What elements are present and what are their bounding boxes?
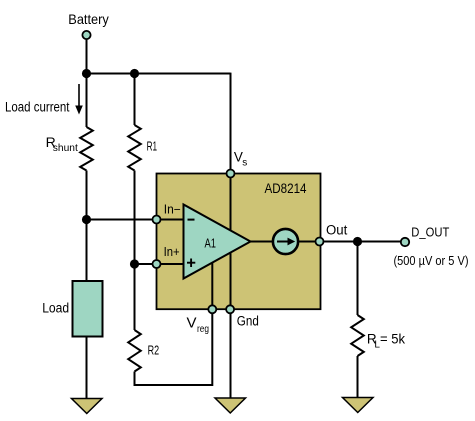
svg-text:shunt: shunt bbox=[53, 142, 78, 154]
svg-text:Load: Load bbox=[42, 300, 69, 315]
svg-text:A1: A1 bbox=[205, 235, 217, 250]
svg-text:V: V bbox=[187, 315, 197, 332]
svg-text:s: s bbox=[242, 158, 247, 169]
svg-text:Gnd: Gnd bbox=[237, 314, 259, 329]
svg-text:D_OUT: D_OUT bbox=[411, 226, 449, 240]
svg-text:= 5k: = 5k bbox=[380, 331, 405, 346]
svg-text:(500 µV or 5 V): (500 µV or 5 V) bbox=[394, 253, 469, 268]
svg-text:reg: reg bbox=[197, 323, 209, 335]
svg-text:R1: R1 bbox=[147, 139, 158, 153]
svg-text:AD8214: AD8214 bbox=[265, 181, 307, 196]
svg-text:Battery: Battery bbox=[68, 11, 109, 27]
svg-text:R2: R2 bbox=[148, 344, 160, 358]
svg-text:In+: In+ bbox=[164, 245, 180, 259]
svg-text:In−: In− bbox=[164, 202, 181, 216]
svg-text:Load current: Load current bbox=[5, 99, 70, 114]
svg-text:Out: Out bbox=[326, 223, 348, 238]
